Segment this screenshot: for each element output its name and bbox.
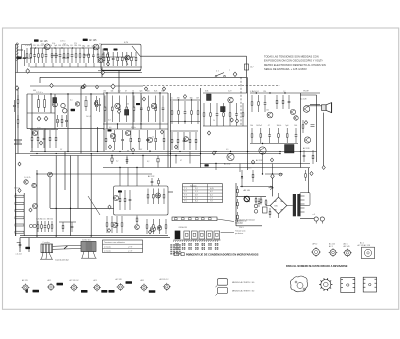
wire long vert x200.5 [200, 88, 202, 168]
svg-text:5p6: 5p6 [63, 44, 66, 46]
svg-text:0,15: 0,15 [248, 168, 251, 170]
capacitor R13_3 [43, 130, 46, 148]
resistor R7_5 [196, 98, 199, 124]
resistor R13_1 [31, 130, 33, 148]
wire mid drop x97 [97, 127, 99, 152]
svg-text:0,1: 0,1 [29, 45, 32, 47]
connector mark [26, 289, 28, 292]
wire row2 corner x40 [39, 77, 41, 83]
svg-text:5p6: 5p6 [54, 45, 57, 47]
wire tone right [23, 193, 25, 236]
svg-text:47: 47 [268, 125, 270, 127]
legend text 2 [232, 290, 255, 293]
svg-text:8,2k: 8,2k [154, 91, 157, 93]
transistor pinout AC132 [93, 279, 101, 291]
wire interstrip v133 [132, 124, 134, 129]
oscillator box outline [101, 44, 141, 70]
capacitor R6_9 [161, 91, 164, 122]
tag bl [25, 247, 30, 249]
tag AC132 b [109, 290, 115, 293]
label reg trans [244, 189, 250, 192]
diamond dashed line a [111, 84, 115, 89]
wire ps rise x272 [272, 164, 274, 175]
resistor R21_4 [189, 132, 191, 150]
resistor mid-m1 [62, 222, 64, 232]
resistor R1_2 [29, 45, 32, 63]
resistor D-R7 [15, 224, 24, 226]
svg-text:8,4: 8,4 [195, 201, 198, 203]
label ps misc [239, 227, 244, 229]
svg-text:AC 1: AC 1 [360, 242, 364, 245]
label row2m2 [108, 120, 111, 122]
resistor R20_2 [152, 219, 154, 234]
capacitor G-C2 [254, 210, 258, 214]
wire interstrip v91 [90, 129, 92, 152]
wire H rail [308, 168, 310, 193]
transistor T6b [94, 102, 98, 106]
label AF 125 [40, 40, 48, 43]
transistor pinout AC126 [70, 279, 88, 292]
svg-text:o escala: o escala [104, 251, 111, 253]
capacitor R6_6 [139, 91, 142, 122]
wire mid-m link [59, 221, 76, 223]
junction dots comb top [35, 47, 95, 48]
resistor E-R19 [136, 216, 138, 225]
capacitor R18_3 [116, 216, 119, 233]
IF can Z4 [207, 94, 212, 101]
wire interstrip v117 [117, 124, 119, 129]
IF can Z1 [53, 98, 57, 103]
label b row2 [33, 90, 36, 92]
IF can Z3 [125, 110, 129, 116]
wire interstrip v113 [112, 150, 114, 152]
wire box feed v128 [127, 168, 129, 187]
svg-text:EN POSICION OM CON OSCILOSCO: EN POSICION OM CON OSCILOSCOPIO Y VOLTI- [264, 59, 323, 63]
resistor R8_7 [242, 103, 244, 126]
resistor R14_5 [138, 130, 140, 150]
wire out rail x316.5 [316, 95, 318, 162]
resistor R13_5 [55, 130, 57, 148]
svg-text:0,5: 0,5 [43, 219, 46, 221]
transistor T15 [303, 106, 310, 113]
wire osc mid [98, 56, 135, 58]
svg-text:4,2V: 4,2V [124, 42, 129, 44]
label row2m [126, 104, 129, 106]
label dial cord [55, 259, 69, 261]
wire long vert x170 [170, 93, 172, 168]
dashed separator [143, 85, 280, 87]
resistor R2_8 [78, 45, 81, 63]
transistor T11 [290, 109, 295, 114]
capacitor G-C3 [258, 198, 261, 207]
wire row2 y100 r [170, 99, 200, 101]
diamond M21 [29, 208, 32, 212]
diamond M12d [212, 151, 215, 155]
junction dots bus2 [36, 153, 262, 154]
wire row2 drop x107 [106, 93, 108, 124]
wire bus y235.7 [20, 235, 168, 237]
resistor R6_8 [154, 91, 157, 122]
wire interstrip v68 [67, 129, 69, 152]
pinout blob chassis [290, 276, 307, 292]
pinout chip 2 [363, 277, 376, 292]
transistor T24 [112, 222, 117, 227]
transistor T16 [304, 137, 310, 143]
resistor R9_1 [250, 91, 253, 112]
wire sep y86 solid [30, 85, 143, 87]
wire bl drop1 [19, 238, 21, 252]
diamond M12 [230, 118, 233, 122]
svg-text:1,0 4,7k: 1,0 4,7k [24, 177, 30, 179]
wire mid h y208 [50, 207, 114, 209]
wire stub s3 [142, 156, 144, 168]
svg-text:0,9: 0,9 [226, 149, 228, 151]
svg-text:1k: 1k [132, 91, 134, 93]
resistor D-R1 [17, 95, 19, 108]
svg-text:10,7: 10,7 [250, 67, 254, 69]
wire row2 y93 mid [103, 92, 168, 94]
key dark K1 [175, 231, 181, 240]
resistor R6_1 [103, 91, 106, 122]
svg-text:AF 125: AF 125 [22, 279, 28, 282]
tag AF125b case [83, 39, 88, 41]
svg-text:220 V: 220 V [239, 227, 244, 229]
note text line 4 [264, 67, 307, 71]
resistor R17_2 [152, 189, 154, 205]
diamond sep a [50, 83, 53, 87]
diamond M19 [131, 148, 134, 152]
resistor R6_5 [132, 91, 135, 122]
resistor R14_1 [105, 130, 107, 150]
svg-text:220: 220 [33, 45, 36, 47]
legend trim text [187, 254, 195, 256]
potentiometer P1 [24, 180, 28, 184]
label ps top [248, 168, 251, 170]
resistor R18_4 [121, 216, 123, 233]
switch S1 contact a [215, 75, 217, 77]
resistor D-R6 [15, 217, 24, 219]
wire out top y95 [300, 94, 317, 96]
svg-text:1,5V o: 1,5V o [60, 41, 65, 43]
svg-text:AC 132: AC 132 [224, 163, 230, 166]
svg-text:7,9: 7,9 [210, 201, 213, 203]
wire row2 drop x32 [31, 94, 33, 129]
svg-text:3,9k: 3,9k [52, 43, 55, 45]
transistor T25 [135, 225, 140, 230]
svg-text:1,1: 1,1 [195, 191, 198, 193]
transformer TR1 [285, 145, 295, 154]
diamond sep b [83, 84, 86, 88]
svg-text:2n2: 2n2 [118, 91, 121, 93]
resistor G-R2 [260, 197, 262, 205]
label bus specks [60, 149, 228, 151]
svg-text:AF 125: AF 125 [89, 39, 97, 42]
resistor R11_1 [250, 125, 253, 143]
diamond M12b [207, 131, 210, 135]
label AC128 a [300, 98, 306, 101]
svg-text:AF 139 OC: AF 139 OC [160, 278, 170, 281]
resistor ant dark [16, 57, 21, 60]
capacitor bl C1 [19, 242, 22, 248]
dial drum left legs [40, 253, 53, 260]
wire row2 y94 left [27, 93, 104, 95]
wire bus y151.5 [30, 151, 317, 153]
wire row2 drop x133 [132, 93, 134, 124]
diamond M-left [18, 162, 21, 166]
resistor R4_8 [135, 52, 137, 66]
svg-text:AC 128: AC 128 [300, 98, 306, 101]
svg-text:68: 68 [30, 43, 32, 45]
wire row2 drop x168 [167, 93, 169, 168]
diamond M14 [270, 158, 273, 162]
wire row3 right top [170, 130, 198, 132]
transistor T18 [110, 133, 115, 138]
resistor R4_2 [108, 52, 110, 66]
transistor T1 [44, 44, 50, 50]
diamond M16 [322, 166, 325, 170]
trimmer TC2 [33, 224, 36, 227]
wire IF drop x246.5 [246, 56, 248, 93]
wire top bus y72.5 [16, 72, 143, 74]
legend text 1 [232, 281, 255, 284]
label audio specks [252, 91, 285, 127]
wire mid drop x65 [64, 152, 66, 191]
svg-text:AC 128: AC 128 [116, 278, 122, 281]
wire osc drop x119 [118, 71, 120, 93]
legend capsule 1 [216, 279, 228, 288]
capacitor R8_6 [235, 103, 238, 126]
resistor R17_4 [163, 189, 165, 205]
label speck row b [30, 43, 102, 45]
svg-text:220: 220 [263, 91, 266, 93]
capacitor R14_6 [146, 130, 149, 150]
wire bus y155.5 [30, 155, 200, 157]
resistor R21_5 [195, 132, 197, 150]
bridge wires [266, 193, 293, 218]
wire ps loop [240, 186, 273, 188]
transistor T4 [53, 102, 58, 107]
potentiometer P2 [32, 183, 36, 187]
capacitor R3_3 [92, 45, 95, 63]
wire antenna vertical [16, 44, 18, 73]
wire bus y163.5 [200, 163, 310, 165]
wire long vert x247.5 [247, 77, 249, 170]
label b4 row2 [86, 116, 91, 118]
wire mid drop x70 [70, 156, 72, 237]
resistor D-R2 [17, 115, 19, 128]
component G-B1 [263, 207, 268, 213]
svg-text:TODAS LAS TENSIONES SON MEDIDA: TODAS LAS TENSIONES SON MEDIDAS CON [264, 55, 319, 59]
capacitor R16_3 [129, 190, 132, 210]
wire amp to switch [168, 191, 173, 193]
resistor R7_2 [177, 98, 180, 124]
trimmer TC1 [29, 224, 32, 227]
marker eq [311, 125, 315, 127]
svg-text:1k: 1k [50, 45, 52, 47]
diamond dashed line b [144, 87, 147, 91]
diode D1 arrow [269, 186, 274, 190]
transistor T27 [157, 226, 161, 230]
wire interstrip v107 [106, 124, 108, 129]
svg-text:T 5: T 5 [184, 201, 187, 203]
tag row2 mid [136, 103, 140, 105]
wire row2 drop x91 [90, 94, 92, 129]
pinout small c [343, 243, 351, 257]
resistor R15_2 [40, 219, 43, 233]
svg-text:25k log: 25k log [14, 188, 20, 190]
tag osc case [104, 48, 108, 50]
label strip right [235, 220, 247, 224]
label onda [178, 226, 187, 229]
resistor R13_4 [49, 130, 51, 148]
wire long vert x300.5 [300, 93, 302, 168]
svg-text:68p: 68p [82, 45, 85, 47]
wire cv drop [49, 177, 51, 208]
note text line 1 [264, 55, 319, 59]
resistor R5d [61, 115, 63, 127]
transistor T3b osc [125, 55, 130, 60]
capacitor R1_6 [44, 45, 47, 63]
svg-text:5p6: 5p6 [285, 125, 288, 127]
diamond M9 [142, 97, 145, 101]
wire pot drop [36, 170, 38, 236]
switch pin rows [176, 243, 219, 249]
wire pots link y174 [37, 173, 152, 175]
svg-text:0,65: 0,65 [210, 188, 214, 190]
capacitor R14_3 [121, 130, 124, 150]
wire ps rise x262 [262, 154, 264, 174]
resistor R11_5 [285, 125, 288, 143]
switch strip frame [172, 217, 217, 221]
transistor T3 osc [98, 58, 102, 62]
resistor R17_1 [147, 189, 149, 205]
key bank arrow [221, 232, 234, 234]
svg-text:100: 100 [294, 125, 297, 127]
wire row3 mid top [103, 128, 168, 130]
diamond M10 [183, 95, 186, 99]
wire ps topleft a [241, 170, 243, 186]
diamond M7 [44, 116, 48, 121]
capacitor R20_3 [158, 219, 161, 234]
capacitor E-C0 [151, 178, 154, 186]
svg-text:47: 47 [125, 91, 127, 93]
resistor R4_5 [121, 52, 123, 66]
bridge rectifier BR1 [270, 197, 287, 214]
svg-text:MEDIDO AL TESTE # 40: MEDIDO AL TESTE # 40 [232, 281, 255, 284]
svg-text:0,1: 0,1 [70, 100, 73, 102]
transistor pinout AD149 [140, 279, 155, 293]
label AF 125 b [89, 39, 97, 42]
svg-text:8,2: 8,2 [147, 161, 149, 163]
resistor G-R1 [255, 197, 257, 204]
wire bus y237.6 [20, 237, 170, 239]
svg-text:15k: 15k [50, 219, 53, 221]
speaker LS1 [322, 103, 332, 113]
svg-text:100: 100 [147, 91, 150, 93]
tag AC132 a [101, 290, 107, 293]
resistor R15_1 [36, 219, 39, 233]
transistor T5a [61, 103, 65, 107]
wire row2 y113 left [27, 112, 55, 114]
wire comb link c [84, 54, 90, 56]
label regulador2 [236, 222, 243, 224]
transistor pinout AF125 [22, 279, 39, 292]
wire audio top y93 [250, 92, 320, 94]
capacitor C1 [23, 50, 26, 66]
svg-text:10k: 10k [110, 91, 113, 93]
wire det bot [203, 125, 247, 127]
resistor R3_4 [96, 45, 99, 63]
transistor pinout AF126 [47, 279, 63, 291]
resistor R3_2 [87, 45, 90, 63]
wire mixer out y56 [140, 55, 247, 57]
wire ps left rail [235, 183, 237, 226]
diamond test point M1 [26, 69, 30, 74]
svg-text:460: 460 [33, 90, 36, 92]
wire stub s1 [111, 156, 113, 165]
svg-text:0,2: 0,2 [210, 191, 213, 193]
svg-text:PARA EL NUMERO MJ ESTE DIBUJO: PARA EL NUMERO MJ ESTE DIBUJO A REVISARS… [286, 265, 348, 268]
node FM antenna [16, 43, 18, 45]
junction dots box feeds [36, 167, 137, 175]
capacitor R2_6 [70, 45, 73, 63]
lower table text [104, 241, 133, 252]
wire speaker feed [305, 105, 322, 107]
label pots [24, 177, 30, 179]
lower table rows [103, 244, 143, 248]
svg-text:100: 100 [256, 125, 259, 127]
resistor R12b [312, 150, 314, 164]
wire interstrip v160 [159, 124, 161, 129]
wire row2 y128.6 left [27, 128, 104, 130]
voltage table frame [183, 184, 223, 203]
circle marker row2 [82, 86, 85, 89]
resistor G-R8 [269, 208, 271, 218]
oscillator box bottom line [98, 70, 141, 72]
capacitor G-C1 [254, 204, 258, 208]
wire row2 y124 mid [103, 123, 168, 125]
label row3 specks [37, 127, 154, 139]
resistor R6_4 [125, 91, 128, 122]
label det specks [213, 91, 232, 122]
junction dots row2 mid [106, 92, 160, 124]
switch wafer block [170, 244, 180, 254]
resistor R18_2 [111, 216, 113, 233]
wire row2 drop x55 [54, 94, 56, 129]
wire ps top y174 [265, 173, 283, 175]
resistor G-R6 [237, 212, 239, 222]
resistor R9_2 [257, 91, 260, 112]
transistor T22 [113, 195, 118, 200]
dial cord lower [53, 248, 82, 251]
diamond M4 [233, 72, 237, 77]
oscillator diag arrow [124, 46, 140, 65]
label keys right [235, 230, 245, 235]
svg-text:AC 125: AC 125 [329, 243, 335, 246]
svg-text:o: o [229, 69, 230, 71]
caption right [286, 265, 348, 268]
wire interstrip v141 [140, 124, 142, 129]
wire ps drop x272 [272, 178, 274, 196]
diamond M17 [39, 141, 42, 145]
resistor R18_1 [106, 216, 108, 233]
junction dots right-mid [178, 99, 192, 122]
wire row2 left drop x27 [26, 94, 28, 129]
resistor R14_7 [155, 130, 157, 150]
label drum right [82, 239, 91, 242]
svg-text:0,2: 0,2 [210, 194, 213, 196]
svg-text:220: 220 [103, 91, 106, 93]
